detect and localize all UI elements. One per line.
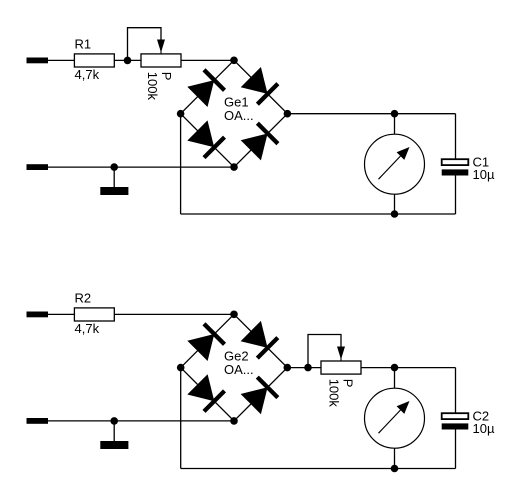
svg-text:100k: 100k	[145, 72, 160, 101]
node bridge2 bottom	[230, 417, 238, 425]
terminal X4 (bottom input, circuit 2)	[27, 418, 49, 424]
wire bridge1 left node down	[180, 114, 182, 214]
svg-text:10µ: 10µ	[473, 421, 495, 436]
wire P2 to meter2 top	[361, 367, 456, 369]
wire bridge2 side L-T	[181, 314, 234, 367]
wire meter2 top stem	[394, 368, 396, 389]
wire meter2 bottom stem	[394, 448, 396, 468]
svg-text:P: P	[340, 379, 355, 388]
node meter1 bottom	[391, 210, 399, 218]
wire wiper riser circuit 1	[128, 28, 162, 61]
wire bridge2 right node to P2	[287, 367, 321, 369]
resistor R2	[74, 308, 114, 321]
node wiper tap circuit 1	[124, 57, 132, 65]
node meter2 top	[391, 364, 399, 372]
wire ground stem circuit 2	[113, 421, 115, 441]
node bridge2 left	[177, 364, 185, 372]
potentiometer P1 body	[141, 54, 181, 67]
wire bridge1 side L-B	[181, 114, 234, 167]
wire bridge2 side L-B	[181, 368, 234, 421]
wire X2 to bridge1 bottom node	[48, 166, 234, 168]
node bridge1 bottom	[230, 163, 238, 171]
wire X1 to R1	[48, 59, 74, 61]
terminal X3 (top input, circuit 2)	[27, 312, 49, 318]
meter M2 needle	[379, 401, 410, 433]
wire X4 to bridge2 bottom node	[48, 420, 234, 422]
wire right rail lower circuit 1	[455, 176, 457, 215]
wire wiper arrow stem P2	[340, 356, 342, 361]
wire wiper riser circuit 2	[308, 335, 341, 368]
diode D4 (bridge Ge1 bottom-right)	[241, 123, 278, 160]
svg-text:P: P	[159, 72, 174, 81]
wire bridge1 side B-R	[234, 114, 287, 167]
wire bridge2 left node down	[180, 368, 182, 469]
capacitor C1 top plate	[442, 159, 469, 165]
node bridge1 right	[284, 110, 292, 118]
svg-text:4,7k: 4,7k	[75, 321, 100, 336]
ground (circuit 1)	[100, 187, 128, 195]
wire right rail upper circuit 1	[455, 114, 457, 160]
diode D6 (bridge Ge2 top-right)	[241, 321, 278, 358]
node ground tap circuit 1	[110, 163, 118, 171]
wire bridge2 side T-R	[234, 314, 287, 367]
wire meter1 bottom stem	[394, 194, 396, 214]
svg-text:OA...: OA...	[224, 108, 254, 123]
svg-text:OA...: OA...	[224, 362, 254, 377]
wire right rail lower circuit 2	[455, 429, 457, 468]
capacitor C2 bottom plate	[442, 423, 469, 429]
svg-text:R1: R1	[75, 37, 92, 52]
wire bottom rail circuit 1	[181, 213, 456, 215]
diode D3 (bridge Ge1 bottom-left)	[187, 120, 224, 157]
wire bridge2 side B-R	[234, 368, 287, 421]
svg-text:10µ: 10µ	[473, 167, 495, 182]
diode D5 (bridge Ge2 top-left)	[187, 324, 224, 361]
wire wiper arrow stem P1	[160, 49, 162, 54]
wire R2 to bridge2 top node	[114, 313, 234, 315]
svg-text:100k: 100k	[326, 379, 341, 408]
wire bottom rail circuit 2	[181, 468, 456, 470]
terminal X1 (top input, circuit 1)	[27, 58, 49, 64]
node meter2 bottom	[391, 465, 399, 473]
meter M2 body	[365, 388, 425, 448]
svg-text:R2: R2	[75, 291, 92, 306]
wire P1 to bridge top node	[181, 59, 234, 61]
capacitor C1 bottom plate	[442, 169, 469, 175]
capacitor C2 top plate	[442, 413, 469, 419]
wire R1 to P1	[114, 59, 141, 61]
node meter1 top	[391, 110, 399, 118]
wire right rail upper circuit 2	[455, 368, 457, 414]
wire bridge1 side L-T	[181, 60, 234, 113]
resistor R1	[74, 54, 114, 67]
node ground tap circuit 2	[110, 417, 118, 425]
wire top rail circuit 1	[287, 113, 455, 115]
terminal X2 (bottom input, circuit 1)	[27, 164, 49, 170]
svg-text:4,7k: 4,7k	[75, 67, 100, 82]
wire bridge1 side T-R	[234, 60, 287, 113]
wire X3 to R2	[48, 313, 74, 315]
wire ground stem circuit 1	[113, 167, 115, 187]
diode D7 (bridge Ge2 bottom-left)	[187, 374, 224, 411]
node bridge2 right	[284, 364, 292, 372]
node bridge1 top	[230, 57, 238, 65]
node bridge2 top	[230, 311, 238, 319]
diode D1 (bridge Ge1 top-left)	[187, 70, 224, 107]
potentiometer P1 wiper arrow	[157, 40, 165, 53]
node wiper tap circuit 2	[304, 364, 312, 372]
potentiometer P2 body	[321, 361, 361, 374]
diode D2 (bridge Ge1 top-right)	[241, 67, 278, 104]
meter M1 needle	[379, 147, 410, 179]
node bridge1 left	[177, 110, 185, 118]
wire meter1 top stem	[394, 114, 396, 135]
diode D8 (bridge Ge2 bottom-right)	[241, 377, 278, 414]
potentiometer P2 wiper arrow	[337, 347, 345, 360]
meter M1 body	[365, 134, 425, 194]
ground (circuit 2)	[100, 441, 128, 449]
